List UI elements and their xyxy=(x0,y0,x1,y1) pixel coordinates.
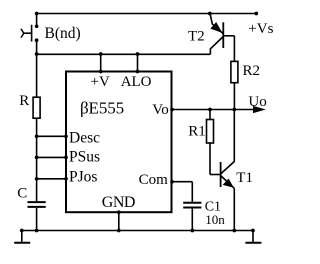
svg-text:C: C xyxy=(17,186,27,202)
svg-text:ALO: ALO xyxy=(121,74,152,90)
svg-text:PSus: PSus xyxy=(69,149,100,166)
svg-text:10n: 10n xyxy=(205,212,225,227)
svg-text:Desc: Desc xyxy=(69,130,100,147)
svg-text:R1: R1 xyxy=(188,123,206,139)
svg-text:B(nd): B(nd) xyxy=(45,25,81,42)
svg-text:PJos: PJos xyxy=(69,168,97,185)
svg-text:Uo: Uo xyxy=(248,94,266,110)
svg-text:R: R xyxy=(19,93,29,109)
svg-text:Vo: Vo xyxy=(152,102,168,118)
svg-text:+Vs: +Vs xyxy=(248,21,273,37)
svg-text:GND: GND xyxy=(102,194,135,211)
svg-text:+V: +V xyxy=(91,74,110,90)
svg-text:βE555: βE555 xyxy=(80,98,124,117)
svg-text:T1: T1 xyxy=(236,170,253,186)
svg-text:T2: T2 xyxy=(188,29,205,45)
svg-text:Com: Com xyxy=(139,172,169,188)
svg-text:R2: R2 xyxy=(243,63,261,79)
